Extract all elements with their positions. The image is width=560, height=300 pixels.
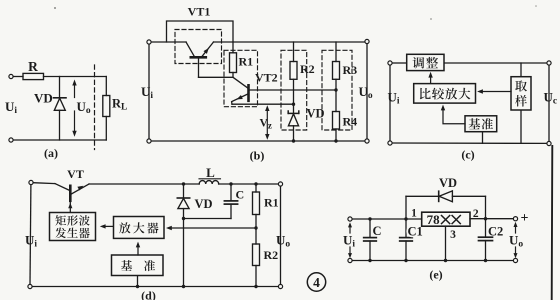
- svg-text:Ui: Ui: [141, 84, 153, 101]
- circuit (c) — regulator block diagram: [0, 0, 1, 1]
- label R1 (b): [239, 55, 254, 69]
- wire c right rail: [548, 65, 550, 141]
- block 基准 (reference) (d): [112, 255, 164, 287]
- terminal e-bottom-right: [513, 258, 517, 262]
- terminal b-bottom-right: [365, 139, 369, 143]
- label (e): [429, 268, 442, 282]
- circuit (d) — switching regulator block diagram: [0, 0, 1, 1]
- wire d bottom rail: [32, 286, 278, 288]
- label Ui (c): [388, 90, 400, 107]
- wire b bottom rail: [151, 140, 365, 142]
- label R1 (d): [264, 196, 279, 210]
- label R2 (b): [300, 62, 315, 76]
- wire VT1 collector loop: [167, 21, 234, 42]
- transistor VT1: [186, 42, 214, 77]
- junction VD top: [182, 182, 185, 185]
- label VD (b): [307, 107, 325, 121]
- inductor L: [199, 181, 219, 184]
- label Ui (e): [343, 233, 355, 250]
- label VT2: [255, 71, 278, 85]
- junction R1 top (d): [254, 182, 257, 185]
- svg-text:+: +: [521, 211, 529, 226]
- annotation Uo arrow (a): [72, 80, 76, 137]
- wire e top rail: [352, 218, 422, 220]
- svg-text:2: 2: [473, 208, 479, 220]
- terminal d-top-left: [29, 180, 33, 184]
- transistor VT2: [232, 77, 249, 104]
- capacitor C1: [400, 219, 413, 262]
- resistor R1 (d): [253, 184, 260, 228]
- capacitor C2: [479, 219, 493, 262]
- svg-text:1: 1: [411, 208, 417, 220]
- page border line right: [551, 146, 554, 300]
- label Uo (a): [77, 99, 91, 116]
- label (c): [461, 148, 474, 162]
- svg-text:Vz: Vz: [260, 118, 272, 131]
- wire pin3 to ground: [444, 226, 447, 262]
- wire VT1 base to R1 bottom: [199, 76, 234, 78]
- junction R4-bottom: [334, 139, 337, 142]
- label pin 1: [411, 208, 417, 220]
- svg-text:VD: VD: [439, 176, 457, 190]
- label R4: [343, 115, 358, 129]
- dashed box VT1: [175, 30, 222, 64]
- wire b top rail: [214, 41, 365, 43]
- label VD (e): [439, 176, 457, 190]
- circuit (a) — zener shunt regulator: [0, 0, 1, 1]
- wire pin2 to output: [470, 218, 513, 220]
- block 基准 (reference) (c): [465, 116, 497, 144]
- label C1: [408, 225, 423, 239]
- circuit (b) — series transistor regulator: [0, 0, 1, 1]
- svg-text:3: 3: [450, 229, 456, 241]
- diode VD (d): [177, 184, 189, 287]
- terminal a-bottom-left: [9, 138, 13, 142]
- svg-text:RL: RL: [112, 97, 127, 113]
- wire b left rail: [148, 44, 150, 139]
- wire d top rail: [89, 183, 278, 185]
- svg-text:C2: C2: [488, 225, 503, 239]
- label R: [28, 59, 38, 74]
- resistor R: [23, 73, 44, 79]
- block 矩形波发生器 (square wave generator): [50, 213, 96, 241]
- svg-text:R1: R1: [264, 196, 279, 210]
- label pin 3: [450, 229, 456, 241]
- svg-text:R1: R1: [239, 55, 254, 69]
- scan specks: [54, 5, 537, 20]
- svg-text:Ui: Ui: [5, 99, 17, 116]
- resistor R2 (b): [290, 42, 297, 104]
- terminal e-bottom-left: [348, 258, 352, 262]
- svg-text:(d): (d): [141, 289, 156, 300]
- wire c top rail: [392, 62, 547, 64]
- label Ui (a): [5, 99, 17, 116]
- svg-text:R2: R2: [300, 62, 315, 76]
- annotation Uo arrows (e): [514, 222, 518, 258]
- wire c left rail: [389, 65, 391, 141]
- label (d): [141, 289, 156, 300]
- block 比较放大 (comparison amplifier): [414, 84, 476, 104]
- wire b right rail: [366, 44, 368, 139]
- diode VD (e): [439, 191, 453, 202]
- terminal b-top-left: [147, 40, 151, 44]
- svg-text:Uo: Uo: [509, 233, 523, 250]
- junction zener-bottom: [292, 139, 295, 142]
- junction divider tap (d): [254, 226, 257, 229]
- label (b): [250, 149, 265, 163]
- label Uo (d): [276, 233, 290, 250]
- label VT1: [188, 5, 211, 19]
- label R2 (d): [264, 248, 279, 262]
- zener diode VD (b): [288, 104, 299, 141]
- label (a): [44, 146, 58, 160]
- wire VT2 base to divider tap: [250, 89, 337, 91]
- label C2: [488, 225, 503, 239]
- resistor R3: [333, 42, 340, 112]
- resistor R1 (b): [230, 42, 237, 77]
- terminal a-top-left: [9, 74, 13, 78]
- junction dots bottom rail (d): [136, 285, 258, 288]
- svg-text:R3: R3: [343, 63, 358, 77]
- svg-text:Ui: Ui: [343, 233, 355, 250]
- figure number 4: [307, 273, 325, 291]
- block 放大器 (amplifier): [114, 217, 165, 239]
- block 取样 (sampling): [511, 63, 531, 143]
- svg-text:R2: R2: [264, 248, 279, 262]
- zener diode VD (a): [54, 77, 67, 141]
- label Vz: [260, 118, 272, 131]
- svg-text:Uo: Uo: [77, 99, 91, 116]
- junction C top (d): [229, 182, 232, 185]
- label plus: [521, 211, 529, 226]
- svg-text:Ui: Ui: [388, 90, 400, 107]
- arrow sample-to-compare: [477, 89, 511, 93]
- terminal d-bottom-right: [278, 284, 282, 288]
- svg-text:78: 78: [427, 212, 441, 227]
- dashed boundary (a): [94, 65, 96, 150]
- label C (d): [236, 188, 245, 202]
- junction divider tap: [334, 88, 337, 91]
- label RL: [112, 97, 127, 113]
- circuit (e) — 78xx three-terminal regulator: [0, 0, 1, 1]
- label Ui (d): [25, 233, 37, 250]
- svg-text:Uo: Uo: [276, 233, 290, 250]
- svg-text:C: C: [236, 188, 245, 202]
- terminal c-top-left: [388, 61, 392, 65]
- terminal d-bottom-left: [28, 284, 32, 288]
- svg-text:VD: VD: [195, 197, 213, 211]
- wire VT2 emitter to zener: [232, 103, 294, 105]
- svg-text:Uc: Uc: [544, 90, 558, 107]
- svg-text:C: C: [373, 224, 382, 238]
- arrow reference-to-amp (d): [136, 242, 140, 255]
- svg-text:L: L: [206, 165, 215, 180]
- svg-text:VD: VD: [34, 91, 53, 106]
- svg-text:VT1: VT1: [188, 5, 211, 19]
- wire feedback to amplifier: [166, 226, 256, 230]
- IC 78xx regulator: [422, 212, 470, 227]
- svg-text:R4: R4: [343, 115, 358, 129]
- junction C top (e): [368, 217, 371, 220]
- capacitor C (d): [224, 184, 237, 219]
- label pin 2: [473, 208, 479, 220]
- label Ui (b): [141, 84, 153, 101]
- arrow compare-to-adjust: [428, 72, 432, 84]
- wire protection loop left: [406, 196, 439, 219]
- block 调整 (adjust): [407, 54, 444, 70]
- svg-text:(b): (b): [250, 149, 265, 163]
- resistor R4: [333, 112, 340, 142]
- svg-text:VT: VT: [67, 167, 84, 181]
- terminal d-top-right: [278, 182, 282, 186]
- terminal c-bottom-right: [547, 141, 551, 145]
- svg-text:VT2: VT2: [255, 71, 278, 85]
- label VT (d): [67, 167, 84, 181]
- transistor VT (d): [55, 184, 89, 213]
- svg-text:(e): (e): [429, 268, 442, 282]
- junction emitter-zener: [292, 103, 295, 106]
- label R3: [343, 63, 358, 77]
- dashed box R3/R4: [322, 50, 352, 130]
- wire reference-to-compare: [441, 105, 465, 124]
- resistor RL: [103, 77, 110, 141]
- dashed box VT2/R1: [224, 50, 258, 106]
- wire d right rail: [280, 186, 282, 284]
- svg-text:R: R: [28, 59, 38, 74]
- label VD (a): [34, 91, 53, 106]
- svg-text:Uo: Uo: [359, 84, 373, 101]
- annotation Ui arrows (e): [348, 222, 352, 258]
- label Uo (e): [509, 233, 523, 250]
- wire C bottom to diode line: [182, 217, 231, 220]
- junction C2 top: [484, 217, 487, 220]
- terminal b-bottom-left: [147, 139, 151, 143]
- label C (e): [373, 224, 382, 238]
- annotation Vz arrow: [265, 105, 269, 140]
- capacitor C (e): [364, 219, 377, 262]
- terminal c-top-right: [547, 61, 551, 65]
- junction C1/loop top: [404, 217, 407, 220]
- wire b input to VT1 collector: [151, 41, 186, 43]
- wire c bottom rail: [392, 142, 547, 144]
- arrow amp-to-generator: [100, 224, 114, 228]
- wire protection loop right: [452, 196, 485, 218]
- label Uc: [544, 90, 558, 107]
- terminal c-bottom-left: [388, 141, 392, 145]
- svg-text:4: 4: [313, 275, 320, 290]
- wire d input to VT: [33, 182, 55, 185]
- label L with rule: [199, 165, 221, 180]
- wire d left rail: [29, 185, 32, 285]
- terminal e-top-right: [513, 217, 517, 221]
- svg-text:C1: C1: [408, 225, 423, 239]
- wire e bottom rail: [352, 260, 513, 262]
- wire a bottom rail: [13, 139, 106, 141]
- resistor R2 (d): [253, 228, 260, 287]
- terminal e-top-left: [348, 217, 352, 221]
- label Uo (b): [359, 84, 373, 101]
- terminal b-top-right: [365, 39, 369, 43]
- dashed box R2/VD: [281, 50, 307, 130]
- wire a input top: [13, 76, 23, 78]
- svg-text:(a): (a): [44, 146, 58, 160]
- svg-text:(c): (c): [461, 148, 474, 162]
- svg-text:Ui: Ui: [25, 233, 37, 250]
- wire a top rail: [44, 76, 107, 78]
- label VD (d): [195, 197, 213, 211]
